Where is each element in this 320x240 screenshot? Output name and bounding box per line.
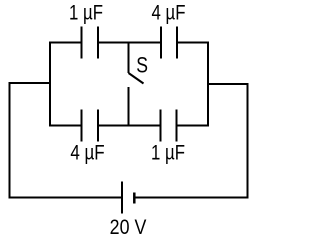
- battery B1 short plate (negative): [133, 193, 136, 204]
- wire bottom branch left segment: [50, 125, 82, 127]
- wire inner left rail: [49, 42, 51, 127]
- switch S upper lead: [128, 43, 130, 74]
- svg-text:1 µF: 1 µF: [69, 2, 103, 25]
- wire right stub to outer rail: [208, 83, 249, 85]
- switch S blade (open): [129, 73, 144, 84]
- svg-text:1 µF: 1 µF: [151, 142, 185, 165]
- capacitor C1 1uF top-left plates: [82, 27, 99, 59]
- wire top branch right segment: [177, 42, 208, 44]
- wire outer right rail: [247, 83, 249, 199]
- wire bottom to battery positive: [9, 197, 123, 199]
- switch S lower lead: [128, 87, 130, 126]
- svg-text:4 µF: 4 µF: [70, 142, 104, 165]
- capacitor C4 1uF bottom-right plates: [161, 110, 177, 142]
- wire bottom branch right segment: [177, 125, 209, 127]
- capacitor C2 4uF top-right plates: [161, 27, 177, 59]
- wire left stub to outer rail: [9, 82, 51, 84]
- svg-text:S: S: [136, 54, 148, 78]
- wire inner right rail: [207, 42, 209, 127]
- capacitor C3 4uF bottom-left plates: [82, 110, 99, 142]
- wire battery negative to bottom right: [134, 197, 248, 199]
- battery B1 long plate (positive): [121, 182, 123, 214]
- wire top branch middle segment: [98, 42, 161, 44]
- svg-text:20 V: 20 V: [110, 215, 147, 239]
- wire bottom branch middle segment: [98, 125, 161, 127]
- wire top branch left segment: [50, 42, 82, 44]
- wire outer left rail: [9, 82, 11, 199]
- svg-text:4 µF: 4 µF: [152, 2, 186, 25]
